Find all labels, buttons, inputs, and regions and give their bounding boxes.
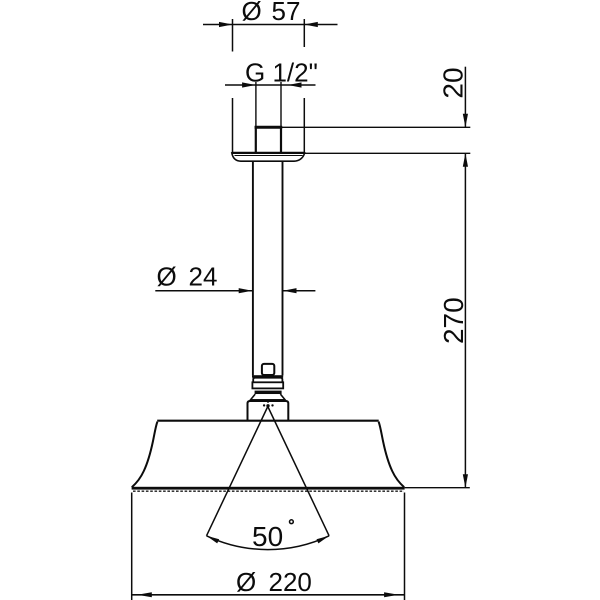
svg-text:Ø: Ø bbox=[242, 0, 262, 26]
svg-text:Ø: Ø bbox=[236, 567, 256, 597]
svg-text:270: 270 bbox=[438, 297, 469, 344]
svg-text:24: 24 bbox=[189, 262, 218, 292]
svg-text:57: 57 bbox=[272, 0, 301, 26]
svg-text:50: 50 bbox=[252, 521, 283, 552]
svg-text:220: 220 bbox=[269, 567, 312, 597]
svg-text:20: 20 bbox=[437, 67, 468, 98]
svg-text:Ø: Ø bbox=[157, 262, 177, 292]
